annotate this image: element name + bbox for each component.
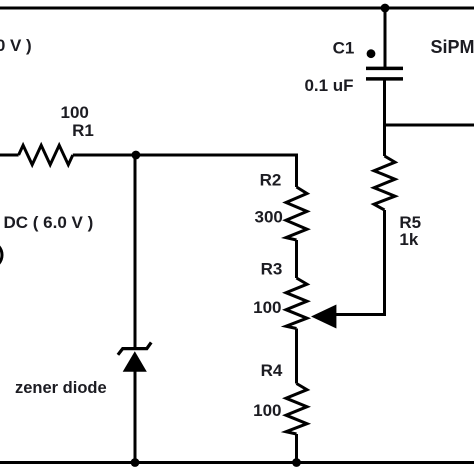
wire: R2 to R3	[295, 240, 298, 278]
svg-text:300: 300	[255, 208, 283, 227]
wire: top rail down to C1	[384, 8, 387, 68]
svg-text:100: 100	[253, 401, 281, 420]
resistor R5	[374, 156, 395, 210]
wire: R4 to bottom rail	[295, 434, 298, 463]
wiper arrow into R3	[311, 305, 336, 329]
voltage source circle (cut off at left edge)	[0, 242, 2, 268]
svg-text:DC ( 6.0 V ): DC ( 6.0 V )	[4, 213, 94, 232]
svg-text:100: 100	[253, 298, 281, 317]
wire: junction A down to zener cathode	[134, 155, 137, 349]
capacitor C1	[366, 68, 403, 79]
node: zener column / bottom rail junction	[131, 458, 140, 467]
svg-text:0.1 uF: 0.1 uF	[304, 76, 353, 95]
svg-text:C1: C1	[333, 39, 355, 58]
wire: R1 to junction node A	[73, 154, 136, 157]
resistor R2	[286, 187, 307, 240]
svg-text:zener diode: zener diode	[15, 379, 107, 397]
svg-text:R1: R1	[72, 121, 94, 140]
node marker dot next to C1	[367, 49, 376, 58]
resistor R1	[19, 145, 73, 164]
svg-text:100: 100	[61, 103, 89, 122]
svg-text:R3: R3	[261, 260, 283, 279]
resistor R4	[286, 384, 307, 435]
wire: R5 down and left to wiper arrow	[336, 210, 385, 315]
svg-text:R4: R4	[261, 361, 283, 380]
node A: R1 / zener / R2 junction	[132, 151, 141, 160]
wire: branch to SiPM module (right edge)	[385, 124, 474, 127]
wire: left lead into R1	[0, 154, 19, 157]
svg-text:R2: R2	[260, 171, 282, 190]
svg-text:SiPM: SiPM	[431, 37, 474, 57]
zener diode D1	[118, 342, 151, 371]
svg-text:0 V ): 0 V )	[0, 36, 32, 55]
svg-text:1k: 1k	[399, 230, 418, 249]
wire: bottom ground rail	[0, 461, 474, 464]
wire: junction A to R2 top corner	[136, 155, 297, 187]
node: top rail / C1 branch junction	[381, 4, 390, 13]
wire: R3 to R4	[295, 329, 298, 384]
wire: C1 bottom plate down to R5	[383, 79, 386, 156]
svg-text:R5: R5	[399, 213, 421, 232]
wire: zener anode to bottom rail	[134, 371, 137, 463]
node: R4 / bottom rail junction	[292, 458, 301, 467]
resistor R3 (potentiometer element)	[286, 278, 307, 329]
wire: top supply rail	[0, 7, 474, 10]
